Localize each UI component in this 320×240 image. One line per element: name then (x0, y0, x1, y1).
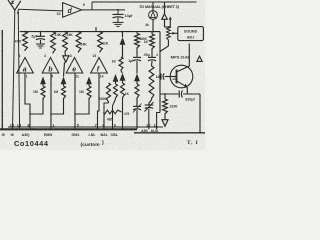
arrow + resistor col 115.5 (113, 74, 119, 82)
resistor 1M with arrow (40, 77, 46, 85)
wire 1M jog (75, 100, 89, 115)
potentiometer (165, 26, 171, 28)
wire summing bus (20, 31, 160, 33)
bottom border thick left (0, 128, 137, 130)
wire stub (95, 27, 97, 31)
wiper arrow (173, 32, 178, 34)
resistor 24K (63, 32, 68, 53)
bottom border right (134, 132, 205, 134)
left border (1, 30, 3, 129)
wire riser to top rail (91, 2, 93, 10)
junction (64, 31, 66, 33)
resistor 1M with arrow (86, 77, 92, 85)
box SOUND ADJ (178, 27, 204, 41)
resistor 24K (76, 32, 81, 53)
wire antenna lead to pin 15 (13, 10, 15, 129)
wire f output to pin 7 (98, 73, 100, 129)
junction (121, 31, 123, 33)
wire a output to pin 8 (25, 73, 30, 129)
small arrow (169, 16, 172, 19)
variable capacitor (136, 99, 138, 106)
resistor 14K (51, 32, 56, 54)
wire amp d output (82, 9, 125, 11)
collector (177, 44, 190, 73)
junction (78, 31, 80, 33)
wire e output to pin 5 (74, 73, 76, 129)
arrow col 122 from bus (122, 32, 124, 37)
wire 1M jog (51, 100, 64, 115)
resistor 6800 (136, 32, 138, 34)
junction (152, 31, 154, 33)
resistor 3300 col 108.5 (106, 83, 110, 103)
wire with down arrow (64, 53, 67, 57)
horizontal resistor 480 (104, 110, 122, 114)
emitter (177, 81, 188, 88)
indicator circle (152, 2, 154, 11)
variable capacitor (149, 100, 152, 105)
resistor 1M with arrow (61, 77, 67, 85)
op-amp e (66, 58, 83, 74)
base coupling cap (159, 76, 161, 78)
wire input down to pin 14 (18, 9, 19, 129)
junction (52, 31, 54, 33)
wire 1M to pin 8 jog (30, 100, 43, 115)
resistor 11K (98, 32, 103, 53)
capacitor 13uF (117, 10, 119, 15)
resistor 3100 (164, 94, 166, 99)
arrow + resistor (134, 74, 140, 82)
wire top rail (92, 1, 197, 3)
resistor 47K (23, 32, 28, 51)
resistor 1K (119, 57, 123, 71)
wire b output to pin 1 (50, 73, 52, 129)
resistor 18K (149, 66, 154, 100)
op-amp f (91, 58, 108, 74)
wire emitter node (160, 93, 179, 95)
wire top input (18, 9, 62, 11)
capacitor .05uF (151, 50, 153, 58)
junction (40, 31, 42, 33)
capacitor .5uF to ground (40, 32, 42, 37)
op-amp b (42, 58, 59, 74)
wire col 160 (159, 32, 161, 113)
ground (117, 18, 119, 23)
op-amp a (17, 58, 34, 74)
antenna mark (11, 1, 14, 3)
IC CO10444 top edge (8, 126, 163, 128)
capacitor 1uF (136, 49, 138, 58)
resistor 1K (151, 32, 153, 34)
antenna (8, 0, 21, 10)
junction (24, 31, 26, 33)
wire pot bottom (160, 41, 168, 52)
junction (99, 31, 101, 33)
capacitor 820uF (178, 91, 180, 98)
op-amp d (63, 3, 82, 18)
arrow to rail (164, 2, 166, 14)
